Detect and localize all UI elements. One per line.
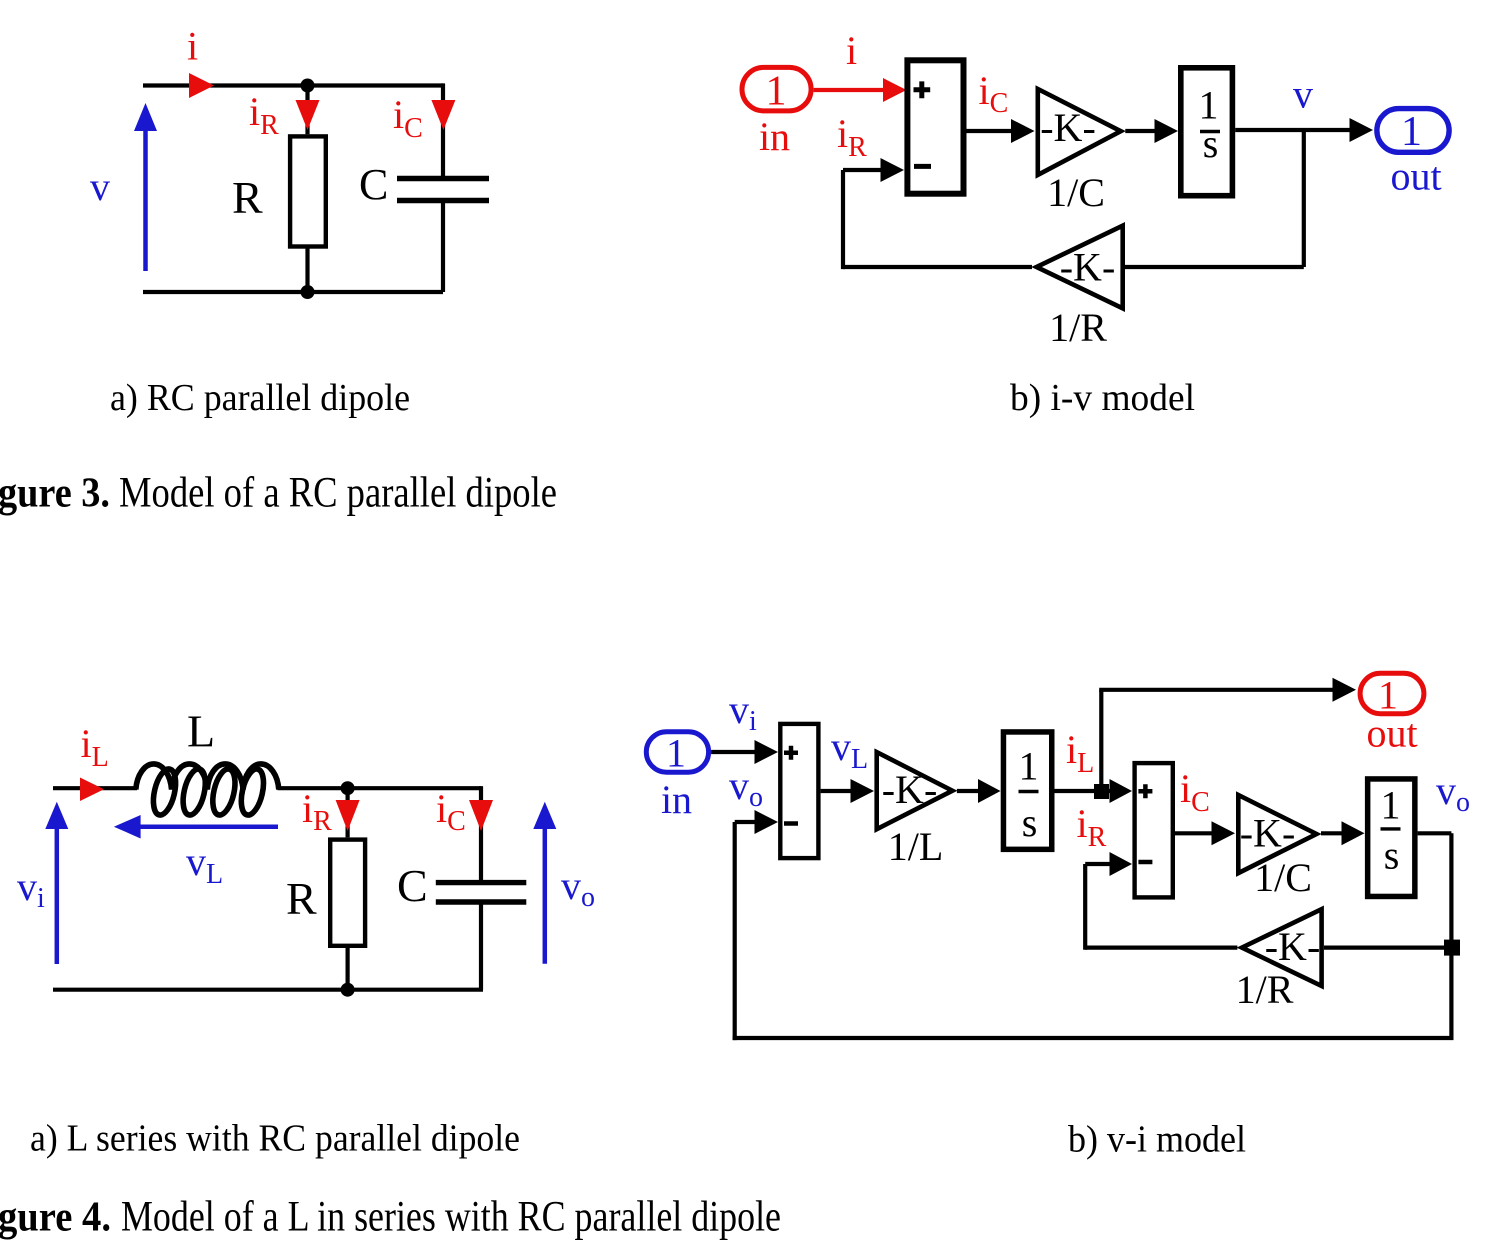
plus sign S2 <box>784 746 798 760</box>
svg-text:v: v <box>1293 72 1313 117</box>
wire top right <box>278 786 482 790</box>
plus sign <box>914 81 931 98</box>
wire gain 1/L to integrator <box>957 789 979 793</box>
svg-text:vL: vL <box>831 724 868 775</box>
svg-text:vo: vo <box>1436 768 1470 818</box>
arrowhead into S3 minus <box>1110 852 1133 876</box>
arrow vo (blue, up) <box>533 802 556 964</box>
svg-text:v: v <box>90 164 110 209</box>
wire resistor bottom lead <box>305 249 309 293</box>
wire feedback right segment <box>1125 265 1304 269</box>
svg-text:vi: vi <box>17 864 45 914</box>
wire right lower <box>441 201 445 293</box>
wire feedback riser <box>841 170 845 269</box>
svg-text:gure 4.: gure 4. <box>0 1194 111 1240</box>
svg-text:1: 1 <box>766 69 787 115</box>
svg-text:iR: iR <box>1077 801 1107 853</box>
node junction square (iL) <box>1094 784 1109 799</box>
sum block S3 <box>1135 763 1173 897</box>
svg-text:R: R <box>232 172 263 223</box>
svg-text:C: C <box>359 160 388 209</box>
svg-text:out: out <box>1366 711 1417 756</box>
wire feedback riser to S3 minus <box>1083 864 1087 950</box>
svg-text:iC: iC <box>1180 766 1210 818</box>
node bottom junction <box>301 285 315 299</box>
svg-text:1/C: 1/C <box>1047 170 1105 215</box>
svg-text:iR: iR <box>837 111 867 163</box>
svg-text:a) L series with RC parallel d: a) L series with RC parallel dipole <box>30 1118 520 1160</box>
svg-text:L: L <box>187 705 215 756</box>
input port in (blue oval, Inport 1) <box>646 732 708 773</box>
gain block 1/C (triangle -K-) <box>1238 795 1316 873</box>
wire riser to out <box>1099 690 1103 791</box>
sum block S1 <box>907 60 963 193</box>
wire into S3 minus <box>1085 862 1111 866</box>
sum block S2 <box>780 724 818 858</box>
svg-text:1: 1 <box>1019 744 1039 789</box>
wire in to sum S2 <box>711 750 756 754</box>
integrator block 1/s <box>1181 68 1233 196</box>
wire in to sum (red) <box>814 88 886 92</box>
label 1/s fraction <box>1199 83 1221 167</box>
label 1/s fraction (second) <box>1381 783 1401 878</box>
svg-text:Model of a L in series with RC: Model of a L in series with RC parallel … <box>121 1193 781 1240</box>
wire integrator to sum S3 <box>1055 789 1112 793</box>
svg-text:1: 1 <box>1401 109 1422 155</box>
node junction square (vo) <box>1444 940 1460 956</box>
svg-text:in: in <box>759 114 790 159</box>
arrowhead into integrator <box>1155 119 1179 143</box>
arrowhead into S3 plus <box>1110 779 1133 803</box>
wire to out port <box>1099 688 1334 692</box>
svg-text:-K-: -K- <box>1240 811 1296 856</box>
svg-text:a) RC parallel dipole: a) RC parallel dipole <box>110 377 410 419</box>
inductor L <box>136 764 279 817</box>
wire right upper <box>479 786 483 883</box>
integrator block 1/s (second) <box>1368 779 1415 897</box>
svg-text:s: s <box>1203 121 1219 166</box>
wire S3 to gain 1/C <box>1175 831 1213 835</box>
minus sign S2 <box>784 821 798 826</box>
arrowhead into out port <box>1333 678 1357 702</box>
svg-text:1: 1 <box>666 731 686 776</box>
wire S2 to gain 1/L <box>821 789 852 793</box>
arrow iR (red, down) <box>296 100 320 130</box>
integrator block 1/s (first) <box>1003 732 1051 849</box>
svg-text:1/C: 1/C <box>1254 855 1312 900</box>
arrowhead into S2 minus <box>755 810 779 834</box>
wire gain 1/C to integrator 2 <box>1321 831 1343 835</box>
wire into S2 minus <box>735 820 756 824</box>
minus sign <box>914 164 931 169</box>
svg-text:vo: vo <box>729 763 763 813</box>
arrowhead into out port <box>1350 118 1374 142</box>
svg-text:out: out <box>1390 154 1441 199</box>
wire branch down from v node <box>1302 130 1306 267</box>
node top junction <box>301 79 315 93</box>
svg-text:-K-: -K- <box>1265 924 1321 969</box>
node bottom junction <box>341 983 355 997</box>
svg-text:iR: iR <box>249 89 279 141</box>
svg-text:iL: iL <box>81 721 109 773</box>
wire feedback to gain 1/R <box>1324 945 1451 949</box>
svg-text:R: R <box>286 873 317 924</box>
svg-text:1/L: 1/L <box>888 824 944 869</box>
resistor R <box>330 840 365 946</box>
wire right upper <box>441 83 445 179</box>
svg-text:C: C <box>397 860 428 911</box>
output port out (blue oval, Outport 1) <box>1377 109 1449 153</box>
wire feedback left segment <box>843 265 1032 269</box>
arrowhead into integrator 2 <box>1342 821 1365 845</box>
svg-text:vL: vL <box>186 839 223 890</box>
svg-text:i: i <box>187 24 198 69</box>
svg-text:b) v-i model: b) v-i model <box>1068 1118 1246 1160</box>
svg-text:vo: vo <box>561 863 595 913</box>
svg-text:in: in <box>661 777 692 822</box>
arrow iC (red, down) <box>431 100 455 130</box>
svg-text:iC: iC <box>436 786 466 837</box>
svg-text:iR: iR <box>302 786 332 837</box>
svg-text:iL: iL <box>1066 727 1094 779</box>
arrow iR (red, down) <box>336 800 360 831</box>
svg-text:-K-: -K- <box>1060 245 1116 290</box>
svg-text:-K-: -K- <box>882 767 938 812</box>
gain block 1/R (triangle -K-, left) <box>1242 909 1322 986</box>
wire right lower <box>479 902 483 990</box>
wire resistor top lead <box>346 788 350 837</box>
arrowhead into gain 1/C <box>1212 821 1236 845</box>
arrow vi (blue, up) <box>45 802 68 964</box>
arrowhead into gain 1/C <box>1011 119 1035 143</box>
wire integrator to out <box>1235 128 1351 132</box>
arrowhead into integrator 1/s <box>978 779 1001 803</box>
svg-text:Model of a RC parallel dipole: Model of a RC parallel dipole <box>119 470 557 517</box>
output port out (red oval, Outport 1) <box>1360 673 1424 713</box>
gain block 1/C (triangle -K-) <box>1038 89 1121 175</box>
node top junction <box>341 781 355 795</box>
svg-text:vi: vi <box>729 687 757 737</box>
wire top left <box>53 786 137 790</box>
arrow vL (blue, left) <box>114 815 278 839</box>
svg-text:gure 3.: gure 3. <box>0 471 110 517</box>
wire down to junction <box>1449 833 1453 1038</box>
resistor R <box>290 136 326 246</box>
wire resistor bottom lead <box>346 948 350 990</box>
svg-text:s: s <box>1022 800 1038 845</box>
svg-text:s: s <box>1384 833 1400 878</box>
wire into sum minus <box>843 168 882 172</box>
arrowhead into sum plus (red) <box>883 78 907 102</box>
label 1/s fraction (first) <box>1019 744 1039 846</box>
gain block 1/L (triangle -K-) <box>877 752 953 829</box>
wire outer loop bottom <box>733 1036 1454 1040</box>
plus sign S3 <box>1138 784 1152 798</box>
svg-text:iC: iC <box>979 68 1009 119</box>
arrow i (red, right) <box>189 73 214 98</box>
svg-text:iC: iC <box>393 92 423 144</box>
wire bottom <box>53 988 483 992</box>
capacitor C <box>397 179 489 201</box>
arrow v (blue, up) <box>134 103 157 271</box>
arrowhead into sum minus <box>881 158 905 182</box>
wire top <box>143 83 443 87</box>
input port in (red oval, Inport 1) <box>742 67 811 111</box>
capacitor C <box>436 883 527 902</box>
arrow iL (red, right) <box>80 778 104 802</box>
gain block 1/R (triangle -K-, left) <box>1037 226 1123 309</box>
minus sign S3 <box>1138 860 1152 865</box>
wire outer loop riser <box>733 822 737 1040</box>
wire sum to gain 1/C <box>967 129 1014 133</box>
arrowhead into S2 plus <box>755 740 779 764</box>
svg-text:-K-: -K- <box>1040 105 1096 150</box>
wire resistor top lead <box>305 86 309 135</box>
arrow iC (red, down) <box>469 800 493 831</box>
svg-text:1/R: 1/R <box>1236 967 1294 1012</box>
svg-text:b) i-v model: b) i-v model <box>1010 377 1195 419</box>
svg-text:1: 1 <box>1381 783 1401 828</box>
wire feedback left of 1/R <box>1085 945 1237 949</box>
svg-text:1/R: 1/R <box>1049 305 1107 350</box>
arrowhead into gain 1/L <box>851 779 875 803</box>
wire integrator 2 out <box>1418 831 1452 835</box>
wire gain to integrator <box>1125 129 1156 133</box>
wire bottom <box>143 290 443 294</box>
svg-text:i: i <box>846 28 857 73</box>
